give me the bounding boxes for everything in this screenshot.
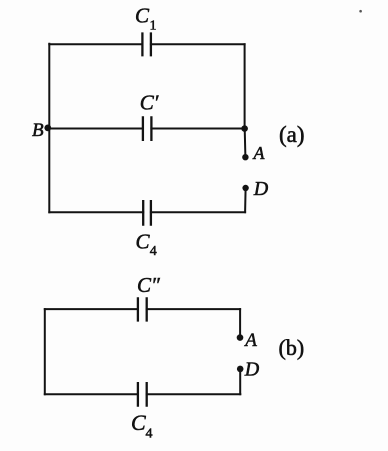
- svg-text:4: 4: [146, 427, 153, 442]
- svg-text:(b): (b): [279, 335, 305, 360]
- svg-text:C: C: [135, 4, 150, 28]
- svg-text:B: B: [32, 120, 44, 141]
- svg-text:A: A: [253, 143, 266, 163]
- svg-text:A: A: [243, 330, 257, 351]
- svg-text:4: 4: [150, 244, 157, 259]
- svg-text:C′: C′: [140, 91, 159, 115]
- svg-text:D: D: [253, 178, 269, 200]
- svg-text:C: C: [131, 410, 146, 435]
- svg-text:C: C: [136, 230, 151, 254]
- svg-text:C″: C″: [137, 273, 160, 297]
- svg-text:D: D: [244, 359, 260, 381]
- svg-text:1: 1: [150, 19, 157, 34]
- svg-text:(a): (a): [279, 122, 305, 147]
